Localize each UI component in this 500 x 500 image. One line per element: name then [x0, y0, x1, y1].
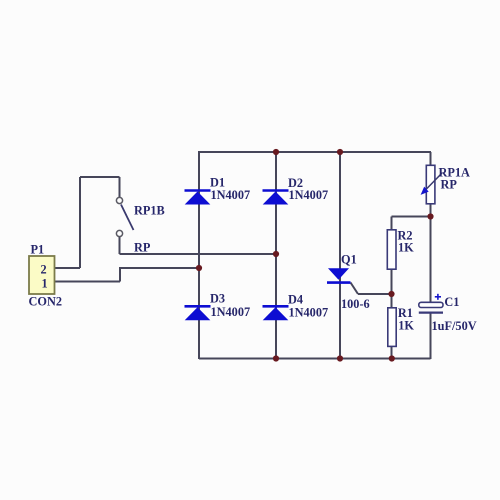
svg-text:RP: RP — [441, 178, 458, 192]
svg-text:1: 1 — [42, 277, 48, 291]
svg-text:100-6: 100-6 — [341, 297, 370, 311]
svg-text:1uF/50V: 1uF/50V — [432, 319, 477, 333]
svg-text:D3: D3 — [210, 292, 225, 306]
svg-text:P1: P1 — [31, 243, 45, 257]
svg-text:1K: 1K — [398, 241, 414, 255]
svg-text:1N4007: 1N4007 — [211, 305, 251, 319]
svg-text:1K: 1K — [398, 319, 414, 333]
svg-text:2: 2 — [41, 263, 47, 277]
svg-text:C1: C1 — [444, 295, 459, 309]
svg-text:Q1: Q1 — [341, 253, 357, 267]
svg-text:1N4007: 1N4007 — [211, 188, 251, 202]
svg-text:1N4007: 1N4007 — [289, 305, 329, 319]
svg-text:CON2: CON2 — [29, 295, 62, 309]
svg-text:RP1B: RP1B — [134, 204, 165, 218]
svg-text:RP: RP — [134, 241, 151, 255]
svg-text:1N4007: 1N4007 — [289, 188, 329, 202]
